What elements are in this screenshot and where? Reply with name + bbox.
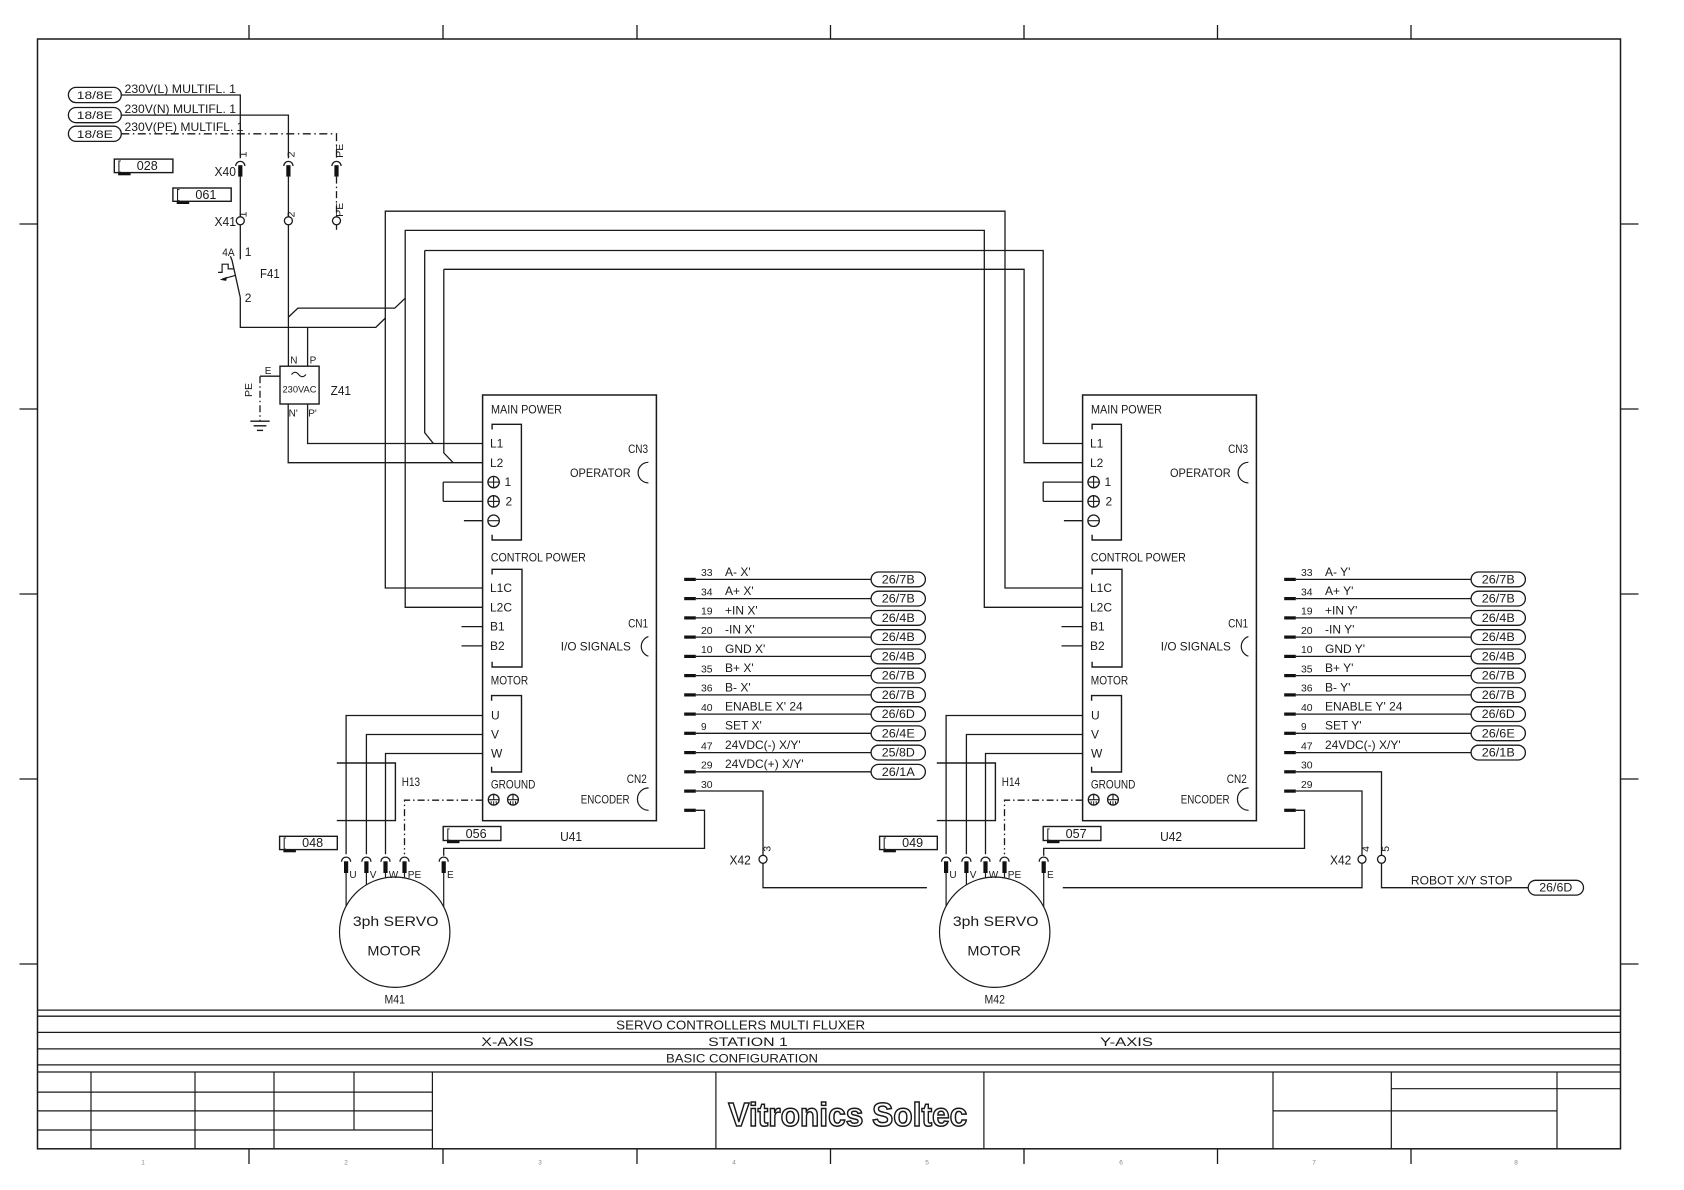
connector pin PE M41	[400, 857, 422, 881]
net label +IN X'	[725, 603, 758, 617]
svg-text:CN2: CN2	[627, 772, 647, 786]
wire X40-PE to X41-PE dash-dot	[336, 177, 338, 217]
U42 minus stub wire	[1064, 520, 1083, 522]
connector X42 pin 5	[1378, 846, 1392, 864]
svg-text:24VDC(+) X/Y': 24VDC(+) X/Y'	[725, 757, 804, 771]
svg-text:L2C: L2C	[1090, 600, 1112, 614]
U41 section label GROUND	[491, 778, 536, 792]
svg-text:24VDC(-) X/Y': 24VDC(-) X/Y'	[725, 738, 801, 752]
reference 26/1B	[1471, 745, 1525, 760]
svg-text:M42: M42	[985, 992, 1006, 1006]
svg-text:35: 35	[1301, 664, 1313, 675]
U42 jumper plus1-plus2	[1043, 482, 1082, 501]
U42 CN3 socket arc	[1238, 462, 1248, 483]
connector pin E M41	[439, 857, 454, 881]
ground symbol at Z41	[250, 421, 269, 430]
svg-text:SET Y': SET Y'	[1325, 719, 1362, 733]
U41 terminal U	[491, 709, 500, 723]
U42 terminal L1C	[1090, 581, 1112, 595]
svg-text:+IN Y': +IN Y'	[1325, 603, 1357, 617]
svg-text:[: [	[283, 836, 287, 850]
net label GND Y'	[1325, 642, 1365, 656]
cable tag _048	[280, 836, 338, 852]
svg-text:26/7B: 26/7B	[1482, 594, 1515, 606]
reference 26/6D robot stop	[1528, 880, 1583, 895]
wire PE pin to M41 body	[404, 873, 406, 878]
wire V pin to M42 body	[965, 873, 967, 885]
wire L from F41 to Z41-P and bus L1C	[240, 298, 385, 328]
svg-text:10: 10	[1301, 645, 1313, 656]
svg-text:061: 061	[195, 188, 216, 202]
svg-text:GROUND: GROUND	[491, 778, 536, 792]
svg-text:CN1: CN1	[1228, 617, 1248, 631]
connector X41 pin PE	[333, 203, 347, 225]
net label B+ Y'	[1325, 661, 1353, 675]
wire 230V(L) from tag to X40-1	[121, 95, 240, 158]
svg-text:26/4B: 26/4B	[1482, 632, 1515, 644]
title Y-AXIS	[1100, 1035, 1153, 1049]
svg-text:26/7B: 26/7B	[882, 671, 915, 683]
servo controller U42 outline	[1083, 395, 1257, 821]
svg-text:29: 29	[1301, 780, 1313, 791]
pin 34 U41	[684, 587, 713, 600]
svg-text:U: U	[949, 870, 956, 881]
reference 26/7B	[1471, 572, 1525, 587]
connector pin E M42	[1039, 857, 1054, 881]
svg-text:X42: X42	[1330, 854, 1351, 868]
svg-text:29: 29	[701, 761, 713, 772]
svg-text:U: U	[349, 870, 356, 881]
U41 CN2 socket arc	[637, 788, 648, 810]
svg-text:26/7B: 26/7B	[882, 690, 915, 702]
U41 terminal L2C	[490, 600, 512, 614]
wire pin 9 U42 to reference	[1296, 732, 1471, 734]
U42 section label CONTROL POWER	[1091, 551, 1186, 565]
svg-text:V: V	[970, 870, 977, 881]
Z41 E stub wire	[260, 375, 280, 377]
U41 designator	[560, 829, 582, 844]
svg-text:X40: X40	[215, 165, 237, 179]
svg-text:N': N'	[289, 409, 298, 420]
svg-text:36: 36	[1301, 684, 1313, 695]
svg-text:2: 2	[1106, 495, 1113, 509]
svg-text:W: W	[1091, 747, 1103, 761]
wire encoder shield U42 to M42 E pin	[1044, 810, 1305, 856]
pin 40 U42	[1284, 703, 1313, 716]
U42 terminal L2	[1090, 456, 1104, 470]
U41 jumper plus1-plus2	[443, 482, 482, 501]
svg-text:230V(L) MULTIFL. 1: 230V(L) MULTIFL. 1	[125, 82, 237, 96]
svg-text:18/8E: 18/8E	[77, 90, 113, 102]
Z41 PE label	[243, 383, 255, 397]
svg-text:18/8E: 18/8E	[77, 129, 113, 141]
svg-text:1: 1	[245, 245, 252, 259]
svg-text:A+ X': A+ X'	[725, 584, 754, 598]
svg-text:MOTOR: MOTOR	[967, 942, 1021, 958]
svg-text:Vitronics Soltec: Vitronics Soltec	[728, 1096, 967, 1133]
U42 connector CN1 label	[1228, 617, 1248, 631]
U42 terminal L1	[1090, 437, 1104, 451]
svg-text:L2C: L2C	[490, 600, 512, 614]
pin 47 U41	[684, 741, 713, 754]
connector X42 label right	[1330, 854, 1351, 868]
svg-text:048: 048	[302, 836, 323, 850]
wire bus L2 (Z41 N' to U42)	[444, 269, 1083, 462]
svg-text:B2: B2	[1090, 639, 1105, 653]
wire E pin to M42 body	[1043, 873, 1045, 907]
net label 230V(L) MULTIFL. 1	[125, 82, 237, 96]
svg-text:[: [	[883, 836, 887, 850]
svg-text:20: 20	[1301, 626, 1313, 637]
svg-text:V: V	[491, 728, 499, 742]
svg-text:26/7B: 26/7B	[882, 574, 915, 586]
svg-text:26/1A: 26/1A	[882, 767, 915, 779]
net label SET X'	[725, 719, 762, 733]
pin 19 U41	[684, 607, 713, 620]
net label +IN Y'	[1325, 603, 1357, 617]
svg-text:26/4E: 26/4E	[882, 728, 915, 740]
pin 40 U41	[684, 703, 713, 716]
svg-text:H13: H13	[402, 775, 420, 789]
wire pin 47 U41 to reference	[696, 752, 871, 754]
svg-text:ENCODER: ENCODER	[581, 793, 630, 807]
Z41 terminal label N	[290, 356, 297, 367]
svg-text:30: 30	[701, 780, 713, 791]
svg-text:CONTROL POWER: CONTROL POWER	[491, 551, 586, 565]
pin shield U41	[684, 809, 696, 812]
svg-text:V: V	[1091, 728, 1099, 742]
pin 10 U42	[1284, 645, 1313, 658]
wire U41 pin30 to X42-3	[696, 791, 763, 855]
title STATION 1	[708, 1035, 788, 1049]
pin 35 U42	[1284, 664, 1313, 677]
U42 terminal L2C	[1090, 600, 1112, 614]
net label 24VDC(-) X/Y'	[725, 738, 801, 752]
reference 26/6E	[1471, 726, 1525, 741]
svg-text:230VAC: 230VAC	[283, 385, 317, 396]
svg-text:230V(PE) MULTIFL. 1: 230V(PE) MULTIFL. 1	[125, 120, 244, 134]
wire W pin to M41 body	[385, 873, 387, 878]
pin 36 U42	[1284, 684, 1313, 697]
title X-AXIS	[481, 1035, 533, 1049]
connector X40 pin 2	[284, 151, 298, 176]
U41 control power terminal group	[492, 569, 522, 667]
U42 section label MOTOR	[1091, 674, 1129, 688]
wire Z41 P' to U41 L1	[308, 404, 483, 444]
pin 30 U42	[1284, 761, 1313, 774]
svg-text:SERVO CONTROLLERS MULTI FLUXER: SERVO CONTROLLERS MULTI FLUXER	[616, 1018, 865, 1033]
U42 B2 stub wire	[1062, 645, 1083, 647]
reference 26/4E	[871, 726, 925, 741]
svg-text:W: W	[989, 870, 999, 881]
svg-text:X41: X41	[215, 215, 237, 229]
U42 terminal U	[1091, 709, 1100, 723]
wire pin 36 U41 to reference	[696, 694, 871, 696]
svg-text:GND Y': GND Y'	[1325, 642, 1365, 656]
wire X42-5 to robot stop reference	[1382, 863, 1529, 887]
wire PE dash-dot M42	[1005, 800, 1083, 854]
svg-text:B+ X': B+ X'	[725, 661, 754, 675]
U41 I/O SIGNALS label	[561, 640, 631, 654]
svg-text:30: 30	[1301, 761, 1313, 772]
U41 B1 stub wire	[462, 626, 483, 628]
svg-text:2: 2	[286, 151, 298, 157]
net label ENABLE Y' 24	[1325, 700, 1403, 714]
wire pin 10 U42 to reference	[1296, 655, 1471, 657]
svg-text:1: 1	[505, 475, 512, 489]
Z41 terminal label E	[265, 366, 272, 377]
wire PE dash-dot M41	[405, 800, 483, 854]
reference 26/4B	[1471, 611, 1525, 626]
net label B- Y'	[1325, 680, 1350, 694]
svg-text:24VDC(-) X/Y': 24VDC(-) X/Y'	[1325, 738, 1401, 752]
svg-text:CN3: CN3	[628, 442, 648, 456]
breaker F41 pin 2 label	[245, 291, 252, 305]
pin 29 U41	[684, 761, 713, 774]
reference 26/4B	[1471, 630, 1525, 645]
source reference tag 18/8E line 2	[68, 108, 121, 123]
reference 26/6D	[871, 707, 925, 722]
net label -IN X'	[725, 623, 755, 637]
svg-text:4A: 4A	[222, 247, 235, 259]
wire X41-1 to F41	[239, 225, 241, 259]
reference 26/4B	[871, 649, 925, 664]
svg-text:PE: PE	[334, 203, 346, 217]
connector X41 pin 1	[236, 211, 249, 224]
svg-text:ROBOT X/Y STOP: ROBOT X/Y STOP	[1411, 874, 1513, 888]
wire pin 35 U41 to reference	[696, 675, 871, 677]
wire U pin to M41 body	[345, 873, 347, 906]
svg-text:CN3: CN3	[1228, 442, 1248, 456]
wire pin 20 U42 to reference	[1296, 636, 1471, 638]
U41 B2 stub wire	[462, 645, 483, 647]
pin 29 U42	[1284, 780, 1313, 793]
connector pin PE M42	[1000, 857, 1022, 881]
U42 terminal V	[1091, 728, 1099, 742]
connector X41 pin 2	[284, 211, 297, 224]
wire pin 9 U41 to reference	[696, 732, 871, 734]
wire N from X41-2 to Z41-N with branch to bus L2C	[288, 225, 405, 366]
reference 26/7B	[871, 668, 925, 683]
wire pin 10 U41 to reference	[696, 655, 871, 657]
svg-text:OPERATOR: OPERATOR	[1170, 466, 1231, 480]
source reference tag 18/8E line 3	[68, 126, 121, 141]
svg-text:028: 028	[137, 159, 158, 173]
connector X42 pin 3	[759, 846, 774, 864]
connector pin V M41	[362, 857, 377, 881]
svg-text:I/O SIGNALS: I/O SIGNALS	[561, 640, 631, 654]
svg-text:B1: B1	[1090, 620, 1105, 634]
svg-text:9: 9	[1301, 722, 1307, 733]
svg-text:E: E	[265, 366, 272, 377]
svg-text:26/6D: 26/6D	[1539, 883, 1572, 895]
svg-text:20: 20	[701, 626, 713, 637]
svg-text:L1C: L1C	[1090, 581, 1112, 595]
svg-text:26/4B: 26/4B	[1482, 613, 1515, 625]
svg-text:L2: L2	[490, 456, 504, 470]
wire PE pin to M42 body	[1004, 873, 1006, 878]
svg-text:057: 057	[1066, 827, 1087, 841]
svg-text:4: 4	[1360, 846, 1372, 852]
U42 designator	[1160, 829, 1182, 844]
U41 main power terminal group	[492, 424, 521, 540]
U42 main power terminal group	[1092, 424, 1121, 540]
wire V M41	[366, 735, 482, 855]
connector X42 pin 4	[1358, 846, 1372, 864]
wire stub below X41-PE	[336, 225, 338, 230]
logo Vitronics Soltec	[728, 1096, 967, 1133]
cable tag _049	[880, 836, 938, 852]
connector X42 label left	[730, 854, 751, 868]
Z41 designator	[331, 384, 351, 398]
svg-text:3: 3	[538, 1160, 542, 1167]
svg-text:7: 7	[1312, 1160, 1316, 1167]
svg-text:34: 34	[701, 587, 713, 598]
U42 ground terminal 1	[1088, 794, 1099, 805]
svg-text:PE: PE	[334, 144, 346, 158]
net label SET Y'	[1325, 719, 1362, 733]
svg-text:049: 049	[902, 836, 923, 850]
connector X41 label	[215, 215, 237, 229]
svg-text:A- X': A- X'	[725, 565, 751, 579]
pin 19 U42	[1284, 607, 1313, 620]
svg-text:33: 33	[701, 568, 713, 579]
svg-text:A+ Y': A+ Y'	[1325, 584, 1353, 598]
connector X40 label	[215, 165, 237, 179]
wire U42 pin30 to X42-5	[1296, 772, 1382, 856]
U42 B1 stub wire	[1062, 626, 1083, 628]
pin 34 U42	[1284, 587, 1313, 600]
U41 CN1 socket arc	[641, 637, 648, 657]
M42 designator	[985, 992, 1006, 1006]
wire pin 36 U42 to reference	[1296, 694, 1471, 696]
svg-text:5: 5	[925, 1160, 929, 1167]
wire pin 19 U41 to reference	[696, 617, 871, 619]
svg-text:34: 34	[1301, 587, 1313, 598]
svg-text:X-AXIS: X-AXIS	[481, 1035, 533, 1049]
net label 230V(N) MULTIFL. 1	[125, 102, 237, 116]
svg-text:19: 19	[1301, 607, 1313, 618]
U41 terminal plus 1	[488, 475, 512, 489]
U41 ENCODER label	[581, 793, 630, 807]
pin 36 U41	[684, 684, 713, 697]
wire bus L2C (N to both controllers)	[405, 230, 1082, 607]
svg-text:3ph SERVO: 3ph SERVO	[353, 913, 439, 929]
svg-text:26/7B: 26/7B	[882, 594, 915, 606]
U41 CN3 socket arc	[638, 462, 648, 483]
svg-text:35: 35	[701, 664, 713, 675]
svg-text:3: 3	[762, 846, 774, 852]
U42 terminal minus	[1088, 515, 1099, 526]
svg-text:26/7B: 26/7B	[1482, 690, 1515, 702]
wire pin 40 U42 to reference	[1296, 713, 1471, 715]
svg-text:BASIC CONFIGURATION: BASIC CONFIGURATION	[666, 1051, 818, 1065]
reference 26/7B	[871, 572, 925, 587]
wire U pin to M42 body	[945, 873, 947, 906]
pin 30 U41	[684, 780, 713, 793]
wire pin 34 U42 to reference	[1296, 598, 1471, 600]
wire V M42	[966, 735, 1082, 855]
pin 33 U42	[1284, 568, 1313, 581]
connector pin W M42	[981, 857, 999, 881]
svg-text:V: V	[370, 870, 377, 881]
svg-text:CN1: CN1	[628, 617, 648, 631]
wire pin 34 U41 to reference	[696, 598, 871, 600]
svg-text:P': P'	[308, 409, 317, 420]
pin 35 U41	[684, 664, 713, 677]
svg-text:2: 2	[506, 495, 513, 509]
svg-text:B2: B2	[490, 639, 505, 653]
svg-text:MAIN POWER: MAIN POWER	[491, 403, 562, 417]
connector pin U M41	[342, 857, 357, 881]
U41 terminal B2	[490, 639, 505, 653]
svg-text:10: 10	[701, 645, 713, 656]
svg-text:26/1B: 26/1B	[1482, 748, 1515, 760]
svg-text:47: 47	[1301, 741, 1313, 752]
svg-text:A- Y': A- Y'	[1325, 565, 1350, 579]
cable tag _028	[114, 159, 173, 175]
pin 20 U42	[1284, 626, 1313, 639]
connector pin W M41	[381, 857, 399, 881]
svg-text:[: [	[176, 188, 180, 202]
reference 26/7B	[1471, 668, 1525, 683]
svg-text:B- Y': B- Y'	[1325, 680, 1350, 694]
svg-text:19: 19	[701, 607, 713, 618]
svg-text:36: 36	[701, 684, 713, 695]
reference 26/1A	[871, 764, 925, 779]
H13 designator	[402, 775, 420, 789]
U42 terminal B1	[1090, 620, 1105, 634]
net label A- X'	[725, 565, 751, 579]
net label GND X'	[725, 642, 765, 656]
svg-text:26/6D: 26/6D	[882, 709, 915, 721]
svg-text:W: W	[491, 747, 503, 761]
svg-text:-IN X': -IN X'	[725, 623, 755, 637]
svg-text:40: 40	[701, 703, 713, 714]
svg-text:B- X': B- X'	[725, 680, 751, 694]
pin shield U42	[1284, 809, 1296, 812]
mains filter Z41	[280, 366, 319, 404]
svg-text:40: 40	[1301, 703, 1313, 714]
svg-text:M41: M41	[385, 992, 406, 1006]
svg-text:L1: L1	[1090, 437, 1104, 451]
svg-text:N: N	[290, 356, 297, 367]
svg-text:6: 6	[1119, 1160, 1123, 1167]
reference 26/6D	[1471, 707, 1525, 722]
breaker F41 designator	[260, 267, 280, 281]
M41 designator	[385, 992, 406, 1006]
title SERVO CONTROLLERS MULTI FLUXER	[616, 1018, 865, 1033]
svg-text:H14: H14	[1002, 775, 1020, 789]
svg-text:ENABLE Y' 24: ENABLE Y' 24	[1325, 700, 1403, 714]
reference 26/7B	[871, 591, 925, 606]
svg-text:[: [	[118, 159, 122, 173]
wire X40-2 to X41-2	[287, 177, 289, 217]
svg-text:U: U	[1091, 709, 1100, 723]
wire U M42	[946, 716, 1083, 855]
connector pin U M42	[942, 857, 957, 881]
svg-text:26/7B: 26/7B	[1482, 574, 1515, 586]
wire W pin to M42 body	[985, 873, 987, 878]
connector X40 pin PE	[332, 144, 346, 177]
svg-text:33: 33	[1301, 568, 1313, 579]
Z41 terminal label N'	[289, 409, 298, 420]
svg-text:26/4B: 26/4B	[882, 613, 915, 625]
net label ROBOT X/Y STOP	[1411, 874, 1513, 888]
svg-text:25/8D: 25/8D	[882, 748, 915, 760]
net label A+ X'	[725, 584, 754, 598]
svg-text:056: 056	[466, 827, 487, 841]
